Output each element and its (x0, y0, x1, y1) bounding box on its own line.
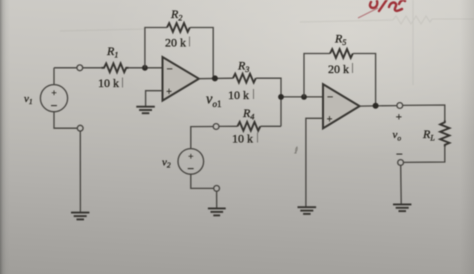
wire R2 right + right riser down to output node (190, 28, 213, 77)
terminal open circle vo bottom (398, 160, 404, 166)
resistor R5 (330, 49, 353, 58)
wire R2 left riser (145, 28, 167, 68)
resistor RL (vertical) (440, 121, 449, 147)
svg-text:R2: R2 (170, 7, 182, 23)
svg-text:+: + (327, 115, 333, 126)
ground (op1 plus input) (136, 107, 155, 114)
wire v2 bottom riser (191, 174, 214, 188)
ground (vo bottom) (393, 204, 411, 211)
svg-text:R1: R1 (106, 44, 118, 60)
wire v2 bottom terminal to ground (216, 191, 218, 208)
svg-text:v2: v2 (162, 157, 171, 170)
resistor R4 (238, 122, 261, 131)
svg-text:R3: R3 (237, 59, 249, 75)
svg-text:−: − (51, 99, 58, 113)
svg-text:−: − (396, 147, 403, 161)
wire top main segment to terminal (54, 67, 77, 69)
svg-text:20 k: 20 k (165, 36, 186, 50)
ghost show-through resistor top right (60, 0, 474, 85)
svg-text:+: + (166, 87, 172, 98)
wire v1 bottom terminal to ground (79, 131, 81, 212)
terminal open circle top left (77, 65, 83, 71)
wire terminal to R4 (219, 125, 238, 127)
wire R3 to right vertical (256, 78, 281, 126)
terminal open circle v2 to R4 (213, 124, 219, 130)
voltage source v2 (178, 149, 204, 175)
wire v1 top riser (53, 68, 55, 85)
wire op1 output to node (199, 77, 233, 80)
wire R1 to node (129, 67, 163, 69)
svg-text:20 k: 20 k (328, 62, 349, 76)
svg-text:vo1: vo1 (206, 92, 221, 110)
node junction dot at R1/R2/op1 (142, 65, 148, 71)
terminal open circle v1 bottom (77, 125, 83, 131)
wire R5 right + riser down to output node (353, 54, 376, 106)
wire mid node to op2 minus input (281, 96, 323, 98)
svg-text:10 k: 10 k (228, 88, 249, 102)
wire v1 bottom riser (54, 112, 77, 128)
svg-text:−: − (327, 91, 333, 103)
wire R5 left riser (304, 54, 330, 97)
terminal open circle vo top (397, 103, 403, 109)
resistor R3 (233, 74, 256, 83)
svg-text:vo: vo (393, 129, 402, 143)
svg-text:10 k: 10 k (98, 76, 119, 90)
svg-text:v1: v1 (24, 93, 33, 106)
stray pencil mark (295, 147, 297, 153)
resistor R2 (167, 23, 190, 32)
svg-text:+: + (51, 89, 56, 99)
wire op2 plus input (306, 118, 323, 207)
svg-text:−: − (187, 162, 194, 176)
wire terminal to R1 (83, 67, 102, 69)
svg-text:+: + (396, 112, 402, 124)
op-amp U2 (323, 84, 360, 128)
svg-text:R5: R5 (334, 32, 346, 48)
ground (v2) (208, 208, 226, 215)
svg-text:−: − (167, 63, 173, 75)
wire op1 plus input (146, 91, 163, 107)
svg-text:R4: R4 (242, 106, 254, 122)
red handwritten mark top right (370, 0, 405, 11)
terminal open circle v2 bottom (214, 186, 220, 192)
svg-text:10 k: 10 k (232, 132, 253, 146)
resistor R1 (101, 63, 128, 72)
wire to RL top (403, 105, 445, 121)
wire RL bottom (404, 147, 445, 163)
wire vo bottom terminal to ground (400, 165, 403, 204)
voltage source v1 (40, 85, 67, 112)
op-amp U1 (163, 57, 199, 101)
svg-text:RL: RL (422, 127, 435, 143)
junction dot op2 output (373, 103, 379, 109)
junction dot R5 branch (301, 94, 307, 100)
junction dot mid left (278, 94, 284, 100)
node junction dot vo1 (212, 75, 218, 81)
ground (op2 plus input) (298, 207, 317, 214)
wire op2 output (360, 105, 397, 108)
wire R4 to right vertical (261, 125, 282, 127)
wire v2 top riser (191, 127, 213, 149)
ground (v1) (71, 213, 89, 220)
red faint diagonal stroke (358, 8, 378, 18)
